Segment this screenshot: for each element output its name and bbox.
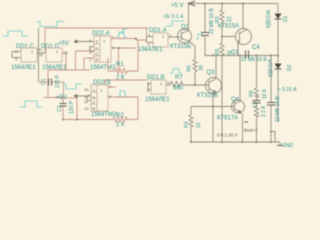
wire DD1.C inputs [12,51,21,53]
wire ground rail [191,141,280,143]
svg-text:+5V: +5V [58,41,69,47]
wire DD1.A input tie [147,36,154,38]
wire output corner [270,132,276,143]
svg-text:22 МК 16 В: 22 МК 16 В [275,96,281,122]
waveform W5 small step [119,29,127,33]
wire Q2 emitter to R6 [190,42,195,60]
resistor R3 [221,4,223,11]
wire +5V rail [191,3,278,5]
svg-text:С2: С2 [57,105,63,112]
waveform W6 left of R6 [170,69,182,74]
wire R9 to rail [256,118,258,142]
gate DD1.A [153,33,168,47]
transistor Q2 [178,29,192,43]
svg-text:0.6 1.25 V: 0.6 1.25 V [217,133,238,138]
svg-text:2 К: 2 К [116,122,125,128]
gate DD1.D [46,48,62,62]
waveform W10 tiny right of Q2 [196,34,202,39]
svg-text:С1: С1 [41,78,47,85]
flip-flop DD2.A [94,36,111,62]
wire FF1 D pin [94,43,100,45]
flip-flop DD2.B [91,85,108,111]
svg-text:10 К: 10 К [262,89,268,99]
wire red drop x45 to DD1.D input [44,28,46,52]
wire red x66 down [65,53,67,70]
svg-text:D2: D2 [287,64,293,71]
gate DD1.B [151,80,166,94]
wire Q3 collector up [215,56,217,79]
waveform W3 right of DD2.A [116,32,127,37]
wire red y80 to DD1.B [105,79,148,81]
wire R1 left leg [118,48,120,71]
svg-text:КТ817А: КТ817А [217,116,238,122]
wire R3 to Q1 base [222,23,236,37]
wire DD1.D out [62,52,66,54]
svg-text:R1: R1 [116,62,124,68]
svg-text:Q3: Q3 [207,70,216,76]
resistor R8 [256,56,258,89]
svg-text:1564ЛЕ1: 1564ЛЕ1 [145,97,170,103]
svg-text:36: 36 [199,65,205,71]
wire FF2 pin8 out [108,96,138,98]
svg-text:22 МК 16 В: 22 МК 16 В [241,57,267,63]
wire DD1.A out to Q2 base [168,36,182,38]
wire FF1 Qbar out [111,47,136,49]
wire R1 right leg [137,40,139,71]
wire red x64 down [63,82,65,98]
svg-text:S: S [96,39,99,44]
svg-text:1564ЛЕ1: 1564ЛЕ1 [138,47,163,53]
resistor R4 [190,107,192,116]
svg-text:D1: D1 [283,15,289,22]
svg-text:КТ815А: КТ815А [218,24,239,30]
resistor R7 [166,82,195,88]
wire R1 to FF R [107,58,109,71]
capacitor C5 [270,56,272,103]
capacitor C1 [39,81,49,83]
wire R5 down to rail [221,56,223,142]
diode D1 [277,4,279,14]
transistor Q3 [206,78,222,94]
wire FF1 R pin drop [84,57,94,59]
waveform W7 notch above DD2.B [62,84,82,89]
resistor R9 [256,103,258,106]
svg-text:1564ТМ2: 1564ТМ2 [90,65,116,71]
wire base line Q4 [191,106,235,108]
gate DD1.C [21,48,37,62]
svg-text:+5 V: +5 V [171,3,184,9]
resistor R6 [193,60,197,74]
wire FF2 pin9 short [108,86,116,88]
svg-text:22: 22 [196,122,202,128]
wire R6 to Q3 base node [195,73,209,85]
svg-text:R7: R7 [175,75,183,81]
wire red loop C2 [63,97,77,99]
svg-text:C4: C4 [252,45,260,51]
wire emitter rail y55 [212,55,278,57]
svg-text:1564ТМ2: 1564ТМ2 [91,112,117,118]
svg-text:Вых≈1: Вых≈1 [244,128,258,133]
svg-text:13: 13 [84,106,89,111]
waveform W1 top-left pulse [3,31,28,36]
svg-text:КД510А: КД510А [266,9,272,28]
wire R2 right leg [137,97,139,120]
wire Q1 collector [242,4,244,30]
capacitor C6 rail 22uF [204,4,206,33]
wire Q4 collector up [239,56,241,101]
wire DD1.B input tie [148,83,151,85]
waveform W4 left of Q2 [166,21,184,26]
svg-text:≈5г 0.1 А: ≈5г 0.1 А [163,14,184,20]
svg-text:R3: R3 [215,16,221,23]
wire red corner bottom-left [44,97,63,99]
diode D2 [275,64,282,70]
wire R4 to rail [190,128,192,142]
ground symbol [279,142,281,145]
svg-text:≈ 0.15 А: ≈ 0.15 А [278,87,297,93]
svg-text:R6: R6 [187,65,193,72]
waveform W2 notch [37,22,64,27]
svg-text:R8: R8 [249,90,255,97]
wire DD1.C out to DD1.D in [37,52,46,54]
resistor R5 [221,37,223,44]
power arrow [189,1,195,6]
wire Q2 collector [188,4,190,31]
svg-text:360: 360 [173,86,184,92]
svg-text:C: C [96,51,99,56]
svg-text:R5: R5 [215,48,221,55]
waveform W8 right of DD2.B [117,91,128,97]
svg-text:R: R [93,106,96,111]
svg-text:GND: GND [282,143,294,149]
wire Q4 emitter down [241,113,243,143]
transistor Q1 [236,29,252,45]
wire red x48 down [47,70,49,97]
junction mark [245,121,249,123]
svg-text:1564ЛЕ1: 1564ЛЕ1 [11,65,36,71]
svg-text:22: 22 [227,16,233,22]
svg-text:120 Р: 120 Р [55,74,61,88]
capacitor C2 [62,98,64,103]
wire red bus y70 [48,69,90,71]
svg-text:2.2 К: 2.2 К [261,106,267,117]
capacitor C4 [245,51,247,59]
wire clock drop [75,51,77,70]
wire Q3 emitter down [213,93,216,143]
wire vertical x38 between gates [38,28,40,82]
svg-text:R: R [96,57,99,62]
svg-text:10: 10 [84,87,89,92]
wire FF2 D pin [91,91,97,93]
wire clock to FF1 pin3 [76,50,95,52]
svg-text:R4: R4 [184,121,190,128]
wire red drop to DD1.A [146,28,148,37]
wire Q1 emitter down [238,40,240,56]
waveform W9 bottom-left [20,101,42,107]
svg-text:КТ315Б: КТ315Б [170,44,191,50]
transistor Q4 [232,100,245,113]
wire red bus y28 [45,27,148,29]
wire FF1 Q out y38.5 to DD1.A [111,38,136,40]
svg-text:120 Р: 120 Р [69,100,75,114]
